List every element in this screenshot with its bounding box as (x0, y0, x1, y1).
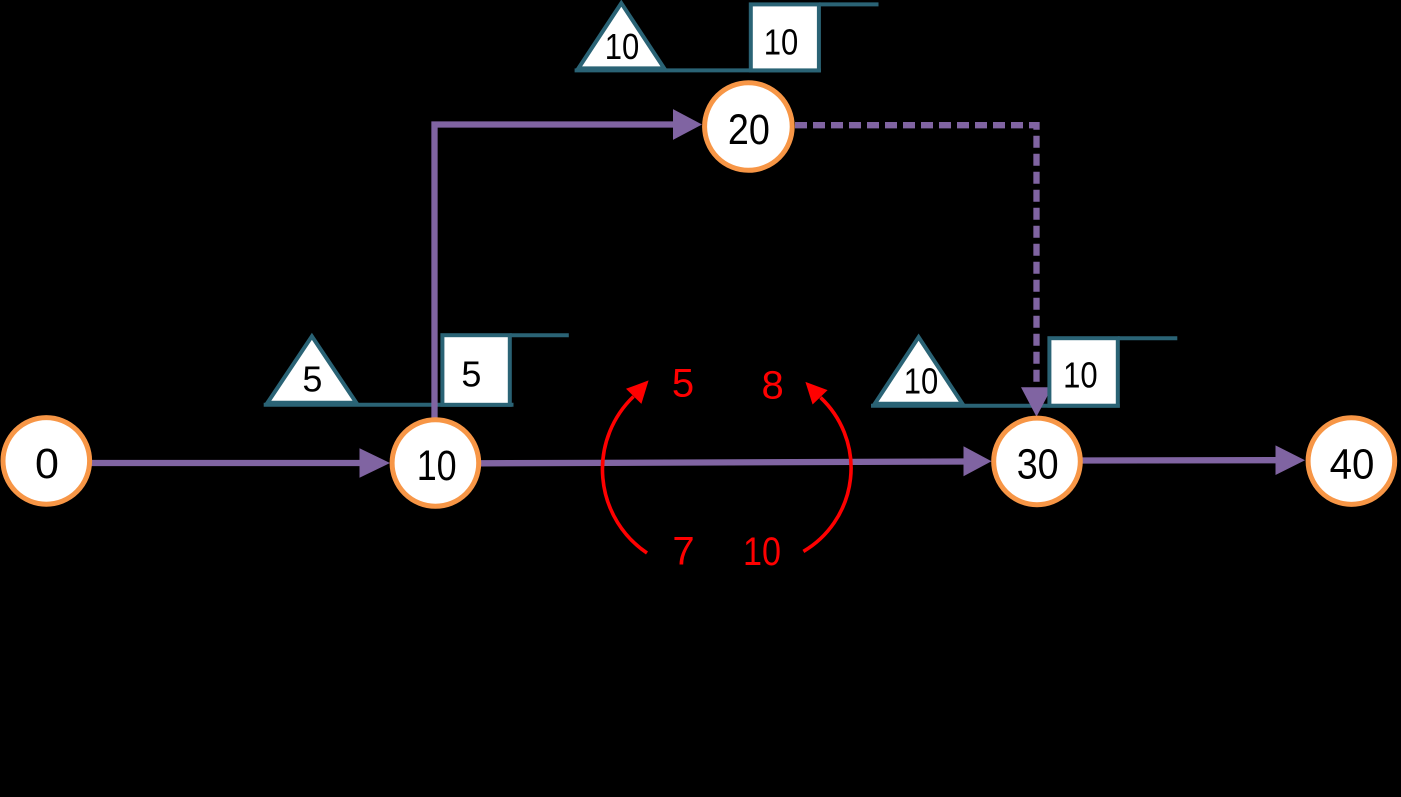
svg-text:10: 10 (1063, 355, 1098, 396)
triangle marker ES 5 (268, 336, 357, 403)
wire arrow 10 to 30 (480, 446, 992, 476)
top extension line (1118, 336, 1178, 340)
time marker group above node 20 (575, 3, 879, 70)
svg-text:5: 5 (302, 358, 322, 399)
time marker group above node 10 (264, 335, 569, 405)
svg-text:30: 30 (1017, 440, 1059, 488)
wire arrow 0 to 10 (89, 448, 390, 478)
square marker LS 10 of node 30 (drawn over arrowhead) (1049, 338, 1117, 406)
wire arrow 30 to 40 (1081, 445, 1305, 475)
svg-text:40: 40 (1330, 440, 1375, 488)
svg-text:5: 5 (461, 354, 481, 395)
node 30 (994, 418, 1081, 505)
baseline (575, 68, 821, 72)
wire elbow arrow 10 up to 20 (435, 109, 703, 424)
svg-text:5: 5 (672, 362, 694, 406)
red right arc with arrowhead (803, 382, 851, 552)
triangle marker ES 10 (578, 3, 664, 68)
time marker group above node 30 (871, 337, 1177, 406)
svg-text:0: 0 (35, 440, 59, 488)
top extension line (819, 2, 879, 6)
svg-text:20: 20 (728, 106, 770, 154)
svg-text:7: 7 (672, 530, 694, 574)
svg-text:8: 8 (761, 364, 783, 408)
node 40 (1308, 418, 1395, 505)
baseline (264, 403, 514, 407)
baseline (871, 404, 1120, 408)
red left arc with arrowhead (602, 380, 648, 553)
square marker LS 5 (442, 335, 509, 405)
svg-text:10: 10 (417, 442, 457, 490)
svg-text:10: 10 (904, 360, 939, 401)
svg-text:10: 10 (743, 530, 781, 574)
triangle marker ES 10 (875, 337, 963, 404)
dashed wire elbow 20 to 30 (795, 125, 1052, 417)
top extension line (510, 333, 569, 337)
svg-text:10: 10 (605, 26, 640, 67)
node 0 (3, 418, 90, 505)
node 20 (705, 83, 793, 171)
svg-text:10: 10 (764, 21, 799, 62)
node 10 (392, 420, 479, 507)
square marker LS 10 (751, 4, 819, 70)
